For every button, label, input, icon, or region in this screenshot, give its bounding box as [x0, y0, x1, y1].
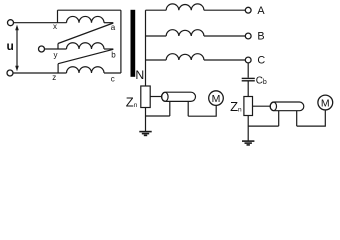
cable 2 left leg: [278, 111, 280, 126]
svg-text:x: x: [53, 22, 57, 31]
svg-text:N: N: [135, 68, 144, 82]
wire cable 1 to motor 1: [188, 105, 216, 116]
cable 1 body: [162, 92, 196, 101]
wire coil to node a: [104, 22, 113, 24]
wire Zn2 to ground 2: [247, 116, 249, 141]
cable 1 right leg: [187, 101, 189, 116]
terminal y: [39, 46, 45, 52]
winding A coil: [166, 4, 204, 10]
wire terminal y to coil: [45, 48, 67, 50]
wire bus to coil C: [146, 59, 167, 61]
svg-text:B: B: [257, 31, 264, 43]
terminal P2 (source bottom): [7, 70, 13, 76]
terminal A: [245, 7, 251, 13]
svg-text:M: M: [212, 93, 221, 105]
wire bus to coil B: [146, 35, 167, 37]
wire cable 2 to motor 2: [297, 110, 326, 126]
wire coil to terminal A: [204, 9, 245, 11]
winding x-a coil: [67, 16, 105, 22]
cable 2 left cap ellipse: [270, 102, 276, 111]
ground 2: [242, 141, 254, 145]
svg-text:u: u: [7, 39, 14, 53]
wire coil to node b: [104, 48, 113, 50]
wire ground stem 2 to cable 2 leg: [248, 125, 279, 127]
wire Zn1 to cable 1: [150, 96, 161, 98]
impedance Zn1 (neutral): [141, 86, 150, 108]
transformer core bar: [131, 10, 136, 77]
motor M1: [209, 91, 224, 106]
secondary neutral bus: [145, 10, 147, 86]
wire corner vertical to y row: [57, 44, 59, 50]
voltage arrow u: [15, 25, 19, 72]
winding C coil: [166, 54, 204, 60]
wire bottom source to winding z: [13, 72, 66, 74]
svg-text:Zn: Zn: [126, 94, 138, 109]
svg-text:b: b: [111, 51, 116, 60]
wire coil to terminal B: [204, 35, 245, 37]
capacitor Cb bottom plate: [242, 80, 255, 82]
cable 2 right leg: [296, 111, 298, 126]
motor M2: [318, 95, 333, 110]
svg-text:A: A: [257, 5, 265, 17]
transformer primary box right edge: [120, 10, 122, 73]
svg-text:z: z: [52, 73, 56, 82]
wire diagonal a to y corner: [58, 23, 113, 44]
wire coil to terminal C: [204, 59, 245, 61]
svg-text:c: c: [111, 75, 115, 84]
svg-text:C: C: [257, 55, 265, 67]
wire terminal C down to capacitor: [247, 63, 249, 78]
winding B coil: [166, 30, 204, 36]
terminal C: [245, 57, 251, 63]
ground 1: [139, 132, 151, 136]
cable 1 left leg: [169, 101, 171, 116]
svg-text:M: M: [321, 97, 330, 109]
wire coil to node c / box bottom edge: [104, 72, 121, 74]
wire top source to winding x: [14, 22, 67, 24]
wire corner vertical to z row: [57, 64, 59, 73]
svg-text:Zn: Zn: [230, 99, 242, 114]
capacitor Cb top plate: [242, 77, 255, 79]
wire Zn1 to ground: [145, 108, 147, 132]
winding y-b coil: [67, 43, 105, 49]
wire capacitor to impedance Zn2: [247, 82, 249, 97]
wire ground stem to cable 1 leg: [146, 115, 170, 117]
svg-text:Cb: Cb: [256, 75, 267, 86]
winding z-c coil: [67, 67, 105, 73]
terminal P1 (source top): [8, 20, 14, 26]
wire Zn2 to cable 2: [253, 105, 271, 107]
wire diagonal b to z corner: [58, 49, 113, 63]
impedance Zn2: [244, 97, 253, 116]
cable 2 body: [270, 102, 304, 111]
transformer primary box left edge segment: [57, 10, 59, 23]
cable 1 left cap ellipse: [162, 92, 168, 101]
terminal B: [245, 33, 251, 39]
wire bus to coil A: [146, 9, 167, 11]
svg-text:y: y: [54, 50, 58, 59]
transformer primary box top edge: [58, 9, 121, 11]
